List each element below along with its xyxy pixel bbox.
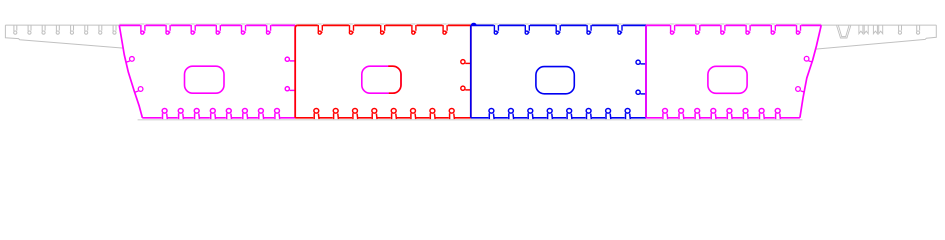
cell 1 web hook lower — [134, 87, 143, 93]
cell 4 web hook upper — [804, 56, 812, 62]
cell 3 top shear keys — [494, 25, 622, 34]
cell 4 bottom slab edge — [646, 117, 800, 119]
cell 3 bottom shear keys — [489, 109, 630, 120]
cell 1 bottom slab edge — [142, 117, 295, 119]
cell 3 bottom slab edge — [471, 117, 646, 119]
cell 4 web hook lower — [796, 87, 805, 92]
left wing top edge — [5, 24, 119, 26]
right wing banner keys pair 1 — [859, 26, 868, 34]
cell 1 manhole opening — [185, 66, 225, 93]
left cantilever wing outline — [5, 25, 123, 48]
cell 1 right wall — [294, 25, 296, 117]
cell 2 right wall hook lower — [461, 86, 471, 90]
right cantilever wing outline — [816, 25, 937, 49]
right wing banner keys pair 2 — [873, 26, 882, 34]
right wing top edge — [821, 24, 936, 26]
cell 1 inclined left web — [119, 25, 142, 117]
bottom slab soffit gray line — [138, 119, 803, 121]
cell 2 bottom shear keys — [314, 109, 455, 120]
cell 3 left wall — [470, 25, 472, 117]
cell 3 right wall hook upper — [636, 60, 646, 64]
cell 2 bottom slab edge — [295, 117, 471, 119]
cell 1 right wall hook lower — [285, 87, 295, 91]
cell 4 bottom shear keys — [663, 109, 781, 120]
cell 3 right wall hook lower — [636, 90, 646, 94]
cell 1 top shear keys — [141, 25, 271, 34]
cell 3 corner bump — [472, 24, 476, 26]
cell 4 top slab edge — [646, 24, 821, 26]
cell 4 left wall — [645, 25, 647, 117]
left wing rebar hooks — [14, 25, 116, 34]
cell 4 manhole opening — [708, 66, 747, 93]
cell 2 top shear keys — [318, 25, 447, 34]
cell 3 manhole opening — [536, 67, 574, 94]
cell 4 top shear keys — [670, 25, 800, 34]
cell 2 left wall — [295, 25, 297, 117]
right wing trapezoid shear pocket — [837, 26, 851, 39]
cell 1 web hook upper — [126, 57, 135, 63]
cell 1 top slab edge — [119, 24, 295, 26]
cell 1 bottom shear keys — [162, 109, 280, 120]
cell 1 right wall hook upper — [285, 57, 295, 61]
cell 2 right wall hook upper — [461, 60, 471, 64]
cell 2 right wall — [470, 25, 472, 117]
right wing rebar hook 2 — [916, 25, 919, 34]
top notch gray marks — [141, 23, 800, 25]
deck top surface line over cells — [119, 23, 821, 25]
cell 2 manhole opening (red right part) — [388, 66, 401, 93]
cell 3 top slab edge — [471, 24, 646, 26]
cell 3 right wall — [645, 25, 647, 117]
cell 2 top slab edge — [297, 24, 470, 26]
cell 4 inclined right web — [800, 25, 821, 117]
right wing rebar hook 1 — [898, 25, 901, 34]
cell 2 manhole opening (magenta base) — [362, 66, 401, 93]
